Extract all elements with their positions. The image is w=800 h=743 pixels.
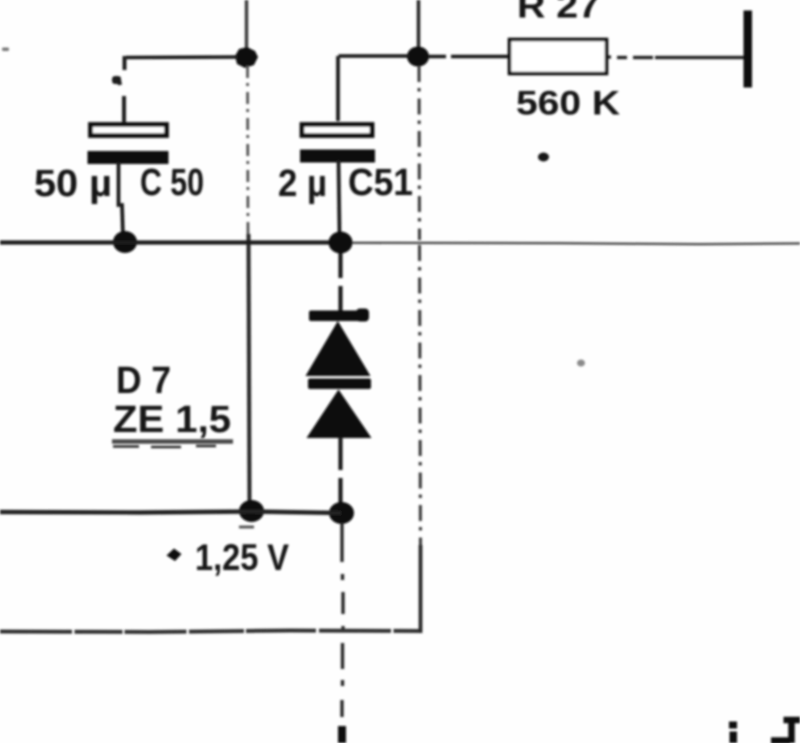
tick above the 5 [239, 526, 254, 529]
text fragment bottom right "i" [729, 722, 737, 729]
wire junction to R27 [428, 55, 509, 58]
node junction V1 / C50 branch [235, 47, 258, 68]
text fragment bottom right partial glyph [771, 720, 800, 743]
svg-text:ZE 1,5: ZE 1,5 [113, 399, 231, 441]
svg-text:C51: C51 [348, 162, 413, 204]
wire bottom vertical end blob [338, 726, 346, 743]
svg-text:D 7: D 7 [116, 360, 171, 402]
wire C50 branch horizontal [126, 55, 238, 59]
diode D7 lower triangle [307, 390, 372, 439]
wire vertical bus V1 top segment [245, 0, 248, 52]
capacitor C50 bottom plate (solid) [88, 151, 169, 164]
capacitor C50 top plate (hollow) [91, 125, 167, 136]
svg-text:R 27: R 27 [517, 0, 600, 26]
wire C51 bottom stem [339, 160, 340, 234]
wire C51 branch horizontal [339, 54, 411, 57]
capacitor C51 top plate (hollow) [302, 125, 372, 136]
tick blob on C50 branch [112, 76, 121, 84]
diode D7 lower cathode bar [308, 379, 371, 390]
node C51 to main rail [329, 232, 353, 254]
wire diode top stem [338, 253, 342, 311]
wire main horizontal rail dark part [0, 240, 352, 244]
node bottom rail left [239, 500, 264, 522]
wire V2 long dash-dot down to lower corner [419, 66, 421, 548]
svg-text:2 µ: 2 µ [278, 163, 327, 205]
wire lower horizontal rail [0, 631, 419, 633]
wire C51 branch vertical [336, 56, 340, 121]
label +1,25V : plus sign [167, 549, 182, 562]
svg-text:C 50: C 50 [140, 162, 204, 204]
svg-text:560 K: 560 K [516, 85, 620, 123]
node junction V2 / R27 / C51 branch [407, 47, 429, 67]
wire V1 dash-dot middle segment [246, 66, 249, 234]
svg-text:50 µ: 50 µ [34, 163, 112, 205]
wire R27 to terminal (dash then solid) [607, 55, 744, 59]
diode D7 upper cathode bar [309, 311, 368, 322]
wire bottom rail horizontal [0, 512, 341, 514]
wire C50 bottom stem [119, 162, 124, 236]
diode D7 upper triangle [306, 321, 371, 376]
resistor R27 body [510, 40, 607, 74]
wire diode bottom stem [338, 437, 342, 504]
terminal bar right [744, 11, 753, 88]
wire vertical bus V2 top segment [417, 0, 421, 50]
speck near R27 below [538, 153, 549, 162]
node bottom rail right [329, 502, 354, 524]
speck left edge [2, 48, 9, 52]
wire C50 branch vertical dashed [119, 56, 125, 122]
wire bottom vertical from node down (dash-dot) [342, 523, 343, 717]
underline below ZE 1,5 [112, 439, 233, 443]
capacitor C51 bottom plate (solid) [300, 150, 375, 163]
speck gray middle [577, 360, 585, 367]
wire lower corner vertical up [419, 545, 423, 633]
node C50 to main rail [113, 231, 137, 253]
svg-text:1,25 V: 1,25 V [195, 537, 289, 578]
wire V1 lower solid segment down to node [249, 234, 250, 505]
wire main horizontal rail thin gray part [352, 243, 800, 244]
